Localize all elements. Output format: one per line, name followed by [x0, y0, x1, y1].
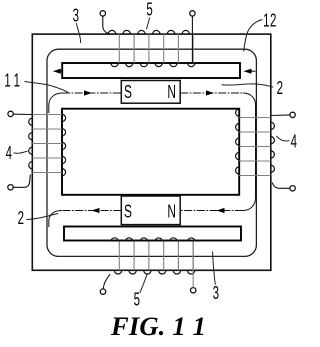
magnet block top: [121, 81, 180, 104]
svg-text:3: 3: [213, 283, 220, 303]
bottom flux bar: [64, 227, 241, 241]
svg-text:12: 12: [263, 11, 277, 31]
label 2 right-top with leader: [277, 78, 284, 98]
lead wire left-bottom: [13, 175, 30, 188]
label 12 top-right with leader: [263, 11, 277, 31]
lead wire top-right: [191, 16, 193, 63]
svg-text:5: 5: [146, 0, 153, 20]
label 4 left with leader: [6, 143, 13, 163]
coil 4 right: [236, 109, 275, 176]
magnet block bottom: [121, 196, 180, 225]
svg-text:N: N: [167, 202, 176, 222]
magnet pole label N top: [167, 83, 176, 103]
terminal top-left of coil 5: [100, 11, 105, 16]
label 4 right with leader: [291, 132, 298, 152]
svg-text:5: 5: [134, 290, 141, 310]
top flux bar: [62, 63, 240, 78]
lead wire bottom-right: [192, 242, 194, 288]
terminal left-top of coil 4: [8, 111, 13, 116]
terminal bottom-right of coil 5: [191, 288, 196, 293]
svg-text:S: S: [124, 83, 132, 103]
magnet pole label N bottom: [167, 202, 176, 222]
lead wire top-left: [103, 16, 110, 34]
label 5 bottom with leader: [134, 290, 141, 310]
central armature rectangle: [62, 109, 239, 195]
terminal bottom-left of coil 5: [100, 289, 105, 294]
flux line top-right: [180, 92, 243, 94]
svg-text:4: 4: [291, 132, 298, 152]
svg-text:S: S: [124, 202, 132, 222]
terminal right-top of coil 4: [290, 112, 295, 117]
flux line top-left: [49, 93, 62, 113]
lead wire bottom-left: [103, 274, 110, 289]
magnet pole label S top: [124, 83, 132, 103]
outer yoke frame 3: [32, 34, 270, 270]
flux line bottom-left: [62, 210, 121, 212]
racetrack core ring 12: [47, 49, 256, 256]
lead wire left-top: [13, 113, 32, 115]
lead wire right-top: [271, 114, 290, 117]
top bar left flux arrow: [58, 70, 62, 72]
terminal top-right of coil 5: [190, 11, 195, 16]
terminal right-bottom of coil 4: [290, 186, 295, 191]
svg-text:N: N: [167, 83, 176, 103]
coil 5 top: [108, 30, 195, 66]
svg-text:2: 2: [18, 208, 25, 228]
label 3 top-left with leader: [73, 6, 80, 26]
label 5 top with leader: [146, 0, 153, 20]
flux line bottom-right: [180, 210, 243, 212]
top bar right flux arrow: [250, 70, 255, 72]
lead wire right-bottom: [272, 183, 290, 189]
magnet pole label S bottom: [124, 202, 132, 222]
svg-text:FIG. 1 1: FIG. 1 1: [110, 311, 206, 341]
svg-text:4: 4: [6, 143, 13, 163]
terminal left-bottom of coil 4: [8, 185, 13, 190]
svg-text:11: 11: [4, 71, 23, 91]
coil 5 bottom: [111, 238, 195, 274]
svg-text:2: 2: [277, 78, 284, 98]
label 2 left-bottom with leader: [18, 208, 25, 228]
label 3 bottom-right with leader: [213, 283, 220, 303]
coil 4 left: [29, 114, 66, 175]
label 11 left with leader: [4, 71, 23, 91]
